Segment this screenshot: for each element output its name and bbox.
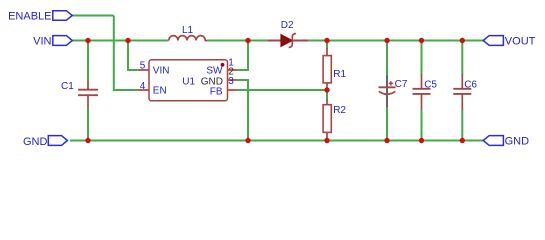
wire top rail diode to VOUT bbox=[308, 40, 484, 42]
wire R1 column top bbox=[326, 41, 328, 49]
wire R1 bottom to node bbox=[326, 88, 328, 92]
capacitor C7 (polarized) bbox=[379, 76, 408, 107]
pin 2 stub bbox=[228, 79, 238, 81]
svg-text:4: 4 bbox=[140, 81, 146, 92]
svg-text:VOUT: VOUT bbox=[505, 35, 536, 47]
port VOUT bbox=[483, 35, 535, 47]
U1 orientation dot bbox=[221, 63, 225, 67]
capacitor C5 bbox=[413, 74, 438, 110]
wire C5 column top bbox=[421, 41, 423, 75]
svg-text:VIN: VIN bbox=[33, 35, 51, 47]
resistor R1 bbox=[323, 48, 346, 88]
port VIN bbox=[33, 35, 72, 47]
wire SW to top rail bbox=[237, 41, 248, 71]
schottky bar bbox=[289, 34, 296, 48]
capacitor C1 bbox=[61, 80, 98, 108]
svg-text:D2: D2 bbox=[281, 20, 294, 31]
svg-text:VIN: VIN bbox=[153, 65, 170, 76]
svg-text:C1: C1 bbox=[61, 81, 74, 92]
node VOUT/R1 bbox=[324, 38, 329, 43]
svg-text:R2: R2 bbox=[333, 105, 346, 116]
node SW/L1/D2 bbox=[245, 38, 250, 43]
wire C1 column bbox=[87, 41, 89, 81]
triangle bbox=[281, 35, 292, 47]
node VOUT/C5 bbox=[419, 38, 424, 43]
node VOUT/C6 bbox=[460, 38, 465, 43]
pin 3 stub bbox=[228, 89, 238, 91]
wire C6 column top bbox=[461, 41, 463, 75]
wire C5 column bottom bbox=[421, 109, 423, 141]
dark lead bbox=[386, 76, 388, 107]
svg-text:R1: R1 bbox=[333, 69, 346, 80]
IC U1 bbox=[138, 58, 238, 101]
port GND left bbox=[23, 136, 67, 148]
svg-text:GND: GND bbox=[505, 135, 529, 147]
curved plate bbox=[379, 91, 395, 94]
capacitor C6 bbox=[453, 74, 477, 110]
node VIN/C1 top bbox=[85, 38, 90, 43]
wire C7 column bottom bbox=[386, 107, 388, 141]
pin 1 stub bbox=[228, 69, 238, 71]
svg-text:SW: SW bbox=[206, 65, 223, 76]
svg-text:GND: GND bbox=[23, 136, 48, 148]
node GND/C6 bbox=[460, 138, 465, 143]
node GND/C1 bottom bbox=[85, 138, 90, 143]
straight plate bbox=[379, 86, 396, 88]
anode lead bbox=[268, 40, 281, 42]
port GND right bbox=[483, 135, 529, 147]
svg-text:3: 3 bbox=[228, 76, 234, 87]
diode D2 (schottky) bbox=[268, 20, 308, 48]
wire VIN rail top left bbox=[72, 40, 168, 42]
node FB divider bbox=[324, 87, 329, 92]
svg-text:C7: C7 bbox=[395, 79, 408, 90]
svg-text:FB: FB bbox=[210, 87, 223, 98]
wire top rail L1 to diode bbox=[208, 40, 268, 42]
pin 4 stub bbox=[138, 89, 149, 91]
wire pin2 GND down to bottom rail bbox=[237, 80, 248, 141]
plus sign bbox=[389, 81, 393, 85]
svg-text:ENABLE: ENABLE bbox=[8, 10, 51, 22]
svg-text:EN: EN bbox=[153, 85, 167, 96]
node GND/C5 bbox=[419, 138, 424, 143]
wire FB to divider bbox=[237, 89, 327, 91]
wire C6 column bottom bbox=[461, 109, 463, 141]
U1 body bbox=[149, 60, 228, 101]
node GND/R2 bbox=[324, 138, 329, 143]
port ENABLE bbox=[8, 10, 72, 22]
wire R2 bottom bbox=[326, 138, 328, 141]
svg-text:L1: L1 bbox=[182, 25, 194, 36]
resistor R2 bbox=[323, 99, 346, 138]
inductor L1 bbox=[169, 25, 208, 41]
wire ENABLE horizontal bbox=[73, 15, 114, 17]
wire GND bottom rail bbox=[70, 140, 484, 142]
node VOUT/C7 bbox=[384, 38, 389, 43]
svg-text:5: 5 bbox=[140, 61, 146, 72]
node VIN/U1 drop bbox=[125, 38, 130, 43]
node GND/U1 pin2 bbox=[245, 138, 250, 143]
wire C7 column top bbox=[386, 41, 388, 77]
wire ENABLE port to vertical drop bbox=[70, 16, 484, 141]
wire ENABLE vertical drop to EN bbox=[114, 16, 138, 91]
pin 5 stub bbox=[138, 69, 149, 71]
svg-text:U1: U1 bbox=[182, 76, 195, 87]
cathode lead bbox=[292, 40, 308, 42]
node GND/C7 bbox=[384, 138, 389, 143]
wire U1 VIN pin drop bbox=[128, 41, 138, 71]
